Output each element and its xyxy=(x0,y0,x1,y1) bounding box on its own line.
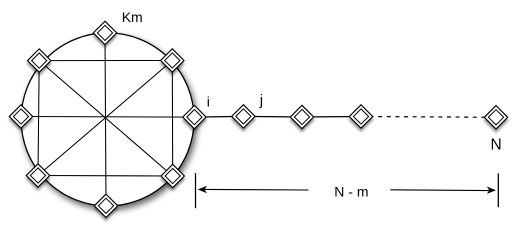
node i (right) xyxy=(183,105,206,128)
edge TL-TR xyxy=(39,60,172,62)
node bottom-left xyxy=(26,164,49,187)
node top-right xyxy=(161,49,184,72)
node l xyxy=(349,105,372,128)
svg-text:N - m: N - m xyxy=(334,184,368,200)
node bottom xyxy=(94,194,117,217)
node top-left xyxy=(28,49,51,72)
node left xyxy=(9,105,32,128)
svg-text:Km: Km xyxy=(122,9,143,25)
svg-text:j: j xyxy=(259,92,263,109)
edge TR-BL diagonal xyxy=(38,61,172,176)
edge TR-BR xyxy=(171,61,173,177)
dimension left arrow xyxy=(198,186,309,193)
clique circle Km xyxy=(21,33,194,206)
svg-text:i: i xyxy=(207,94,210,110)
node k xyxy=(290,105,313,128)
wire i-j xyxy=(194,115,243,118)
node N xyxy=(484,106,507,129)
dimension right bar xyxy=(497,173,499,207)
wire j-k xyxy=(243,115,302,118)
wire l-N dashed xyxy=(361,116,496,119)
node top xyxy=(93,21,116,44)
edge T-B vertical diameter xyxy=(105,33,106,206)
edge TL-BR diagonal xyxy=(39,61,173,176)
dimension right arrow xyxy=(390,187,496,194)
svg-text:N: N xyxy=(491,136,502,153)
wire k-l xyxy=(302,116,361,119)
dimension left bar xyxy=(195,173,197,208)
edge L-R horizontal diameter xyxy=(21,116,194,119)
node bottom-right xyxy=(161,164,184,187)
edge BL-TL xyxy=(38,61,39,176)
edge BR-BL xyxy=(38,175,173,178)
node j xyxy=(232,105,255,128)
